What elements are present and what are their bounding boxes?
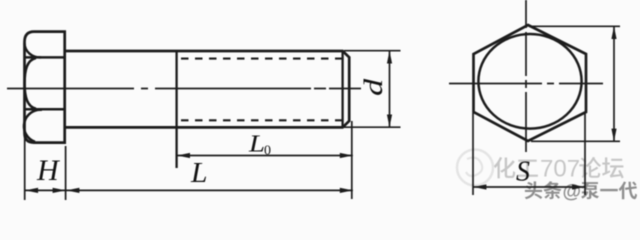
right extension line (bolt end, for L0 and L) bbox=[351, 121, 353, 199]
dimension e: dimension line bbox=[613, 27, 615, 142]
dimension S: left arrow bbox=[473, 184, 486, 189]
dimension e: arrow up bbox=[611, 26, 616, 39]
shank outline with chamfered end bbox=[65, 51, 350, 127]
dimension L0: right arrow bbox=[340, 153, 353, 158]
dimension H: dimension line bbox=[25, 189, 66, 191]
dimension L0: left arrow bbox=[177, 153, 190, 158]
dimension S: extension line left bbox=[472, 113, 474, 195]
svg-text:H: H bbox=[36, 154, 61, 187]
svg-text:L: L bbox=[248, 132, 265, 158]
watermark text 泵一代 (as paths) bbox=[581, 182, 637, 200]
hexagon (end view of head) bbox=[474, 25, 587, 141]
centerline (side view axis) bbox=[7, 88, 361, 90]
watermark text 化工 (as paths) bbox=[494, 157, 538, 178]
dimension L: dimension line bbox=[66, 189, 353, 191]
chamfer edge line at bolt end bbox=[341, 51, 343, 127]
dimension S: dimension line bbox=[473, 186, 585, 188]
svg-text:@: @ bbox=[563, 182, 582, 203]
svg-text:d: d bbox=[359, 78, 388, 96]
head chamfer arc top facet bbox=[25, 44, 42, 58]
svg-text:L: L bbox=[190, 158, 208, 189]
watermark logo circle bbox=[457, 150, 493, 186]
thread start line bbox=[175, 51, 177, 168]
dimension H: right arrow bbox=[53, 188, 66, 193]
dimension d: arrow up bbox=[387, 51, 392, 64]
dimension e (right, across corners): extension lines bbox=[529, 26, 620, 141]
dimension e: arrow down bbox=[611, 129, 616, 142]
dimension H: left arrow bbox=[25, 188, 38, 193]
watermark text 论坛 (as paths) bbox=[579, 157, 623, 178]
watermark text 头条 (as paths) bbox=[525, 181, 562, 199]
extension line head left bbox=[24, 136, 26, 200]
dimension L: left arrow bbox=[66, 188, 79, 193]
dimension L0: dimension line bbox=[177, 155, 353, 157]
dimension d: dimension line bbox=[389, 51, 391, 127]
svg-text:0: 0 bbox=[264, 144, 271, 159]
head chamfer arc middle facet bbox=[25, 58, 36, 109]
dimension S: extension line right bbox=[584, 113, 586, 195]
dimension S: right arrow bbox=[572, 184, 585, 189]
head facet line lower bbox=[25, 108, 65, 111]
vertical centerline end view bbox=[525, 0, 527, 160]
svg-text:S: S bbox=[516, 156, 530, 188]
horizontal centerline end view bbox=[449, 83, 603, 85]
head facet line upper bbox=[25, 56, 65, 59]
thread minor dia dashed line top bbox=[181, 58, 343, 60]
chamfer circle bbox=[478, 34, 581, 129]
svg-text:707: 707 bbox=[540, 156, 580, 183]
dimension d: extension lines bbox=[344, 51, 401, 128]
head chamfer arc bottom facet bbox=[24, 110, 42, 142]
dimension d: arrow down bbox=[387, 115, 392, 128]
dimension L: right arrow bbox=[340, 188, 353, 193]
bolt head outline (side view) bbox=[25, 32, 65, 143]
thread minor dia dashed line bottom bbox=[181, 119, 343, 121]
extension line head right bbox=[65, 146, 67, 200]
